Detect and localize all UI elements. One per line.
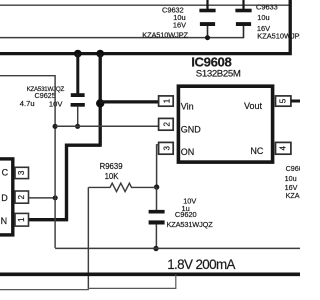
long thin vertical gnd wire [0, 76, 55, 248]
wire ON pin3 down [157, 145, 159, 187]
svg-text:5: 5 [279, 98, 288, 103]
capacitor C9620 [149, 196, 214, 248]
junction dot pin2 net [53, 195, 58, 200]
junction node A [74, 50, 82, 58]
svg-text:S132B25M: S132B25M [196, 69, 241, 80]
svg-text:C: C [2, 167, 9, 177]
svg-text:NC: NC [250, 146, 263, 156]
svg-text:C960: C960 [286, 164, 300, 173]
thick wire jog down-left to left IC pin 1 [29, 145, 101, 220]
thick input rail with right corner [0, 0, 290, 54]
pin 4 box IC9608 [276, 142, 291, 154]
capacitor C9604 labels (cut at edge) [285, 164, 304, 200]
svg-text:IC9608: IC9608 [191, 55, 231, 70]
junction dot ON net [154, 184, 159, 189]
pin 1 box IC9608 [159, 96, 174, 106]
junction dot gnd [53, 124, 58, 129]
capacitor C9633 [235, 0, 304, 40]
junction dot C9625 bottom [75, 124, 80, 129]
svg-text:Vin: Vin [181, 102, 194, 112]
junction dot at C9632 bottom [205, 35, 210, 40]
svg-text:KZA510WJPZ: KZA510WJPZ [142, 30, 188, 39]
svg-text:C9633: C9633 [256, 2, 278, 11]
svg-text:1: 1 [162, 98, 171, 103]
svg-text:1: 1 [17, 217, 26, 222]
long gnd return wire [55, 247, 300, 249]
svg-text:1.8V 200mA: 1.8V 200mA [167, 257, 235, 272]
wire top horizontal net [0, 4, 290, 6]
junction node B [96, 50, 104, 58]
svg-text:2: 2 [162, 122, 171, 127]
pin 1 box left IC [15, 213, 29, 226]
wire down to C9620 [156, 187, 158, 210]
pin 3 box left IC [15, 167, 29, 178]
svg-text:ON: ON [181, 147, 195, 157]
capacitor C9632 [142, 0, 215, 39]
svg-text:KZA5: KZA5 [286, 191, 300, 200]
svg-text:10K: 10K [105, 172, 120, 181]
wire mid thin net [0, 37, 244, 39]
wire pin2 to node [29, 197, 56, 199]
wire resistor left down [87, 187, 89, 288]
junction dot C9620 bottom [153, 246, 158, 251]
left IC U2 (cut off) [0, 159, 13, 235]
wire Vin to pin 1 [100, 100, 159, 103]
svg-text:10V: 10V [49, 99, 63, 108]
svg-text:2: 2 [17, 194, 26, 199]
svg-text:D: D [1, 193, 8, 203]
wire down to C9625 [76, 54, 79, 94]
svg-text:4.7u: 4.7u [20, 99, 35, 108]
svg-text:4: 4 [279, 146, 288, 151]
svg-text:10u: 10u [285, 174, 297, 183]
pin 5 box IC9608 [276, 96, 291, 106]
svg-text:3: 3 [162, 146, 171, 151]
pin 2 box IC9608 [159, 118, 174, 130]
svg-text:16V: 16V [173, 20, 186, 29]
svg-text:Vout: Vout [244, 101, 263, 111]
svg-text:3: 3 [17, 170, 26, 175]
svg-text:R9639: R9639 [100, 162, 123, 171]
resistor R9639 [88, 162, 156, 191]
wire Vout pin5 to edge [291, 100, 300, 103]
svg-text:KZA531WJQZ: KZA531WJQZ [167, 220, 214, 229]
thick output rail [0, 272, 300, 276]
svg-text:C9620: C9620 [175, 210, 197, 219]
svg-text:KZA510WJPZ: KZA510WJPZ [257, 31, 300, 40]
thin bottom boundary wire [0, 275, 176, 290]
capacitor C9625 [20, 86, 85, 126]
svg-text:GND: GND [181, 124, 202, 134]
thick wire down from node B [99, 54, 102, 147]
op-amp U1 IC9608 [178, 55, 272, 162]
junction node Vin [96, 99, 104, 107]
pin 2 box left IC [15, 191, 29, 203]
svg-text:N: N [1, 216, 8, 226]
svg-text:10u: 10u [257, 13, 269, 22]
wire gnd to pin2 of IC9608 [55, 125, 159, 127]
pin 3 box IC9608 [159, 142, 174, 154]
